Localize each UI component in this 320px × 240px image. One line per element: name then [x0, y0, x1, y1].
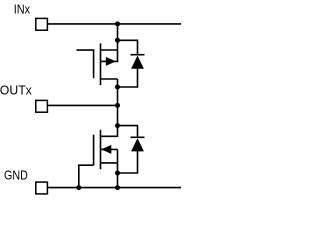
wire F to G — [117, 173, 119, 188]
transistor Q2 channel bar — [100, 130, 102, 170]
wire D2 bottom to node F — [118, 151, 138, 173]
terminal box GND — [36, 182, 48, 194]
node D (OUTx junction) — [115, 103, 120, 108]
transistor Q2 gate lead to GND — [79, 165, 94, 187]
wire GND rail — [48, 187, 182, 189]
svg-text:GND: GND — [4, 167, 28, 182]
diode D1 anode triangle — [131, 56, 144, 69]
transistor Q2 body arrow — [101, 145, 111, 154]
diode D1 cathode bar — [131, 54, 145, 56]
transistor Q1 source stub — [101, 78, 118, 80]
wire INx rail — [48, 23, 182, 25]
wire Q2 drain rail segment — [117, 126, 119, 137]
transistor Q1 (PMOS) gate lead — [77, 50, 94, 78]
node A (INx junction) — [115, 21, 120, 26]
transistor Q1 drain stub — [101, 49, 118, 51]
wire Q1 drain rail segment — [117, 40, 119, 62]
wire B to diode D1 top — [118, 40, 138, 54]
transistor Q2 gate bar — [93, 135, 95, 166]
wire E to diode D2 top — [118, 126, 138, 138]
diode D2 cathode bar — [131, 136, 145, 138]
node E (drain/diode branch bottom) — [115, 123, 120, 128]
transistor Q1 channel bar — [100, 43, 102, 85]
transistor Q2 source stub — [101, 162, 118, 164]
transistor Q1 body stub — [101, 60, 118, 62]
wire D to E — [117, 105, 119, 125]
wire Q1 source rail segment — [117, 79, 119, 87]
wire OUTx — [48, 104, 118, 106]
terminal box OUTx — [36, 100, 48, 112]
node C (source junction) — [115, 85, 120, 90]
node F (source junction bottom) — [115, 171, 120, 176]
node H (gate tie to GND) — [76, 185, 81, 190]
wire D1 bottom to node C — [118, 68, 138, 87]
svg-text:OUTx: OUTx — [0, 83, 32, 98]
wire A to B — [117, 24, 119, 40]
wire Q2 source rail segment — [117, 149, 119, 173]
node B (drain/diode branch) — [115, 38, 120, 43]
transistor Q2 body stub — [101, 148, 118, 150]
diode D2 anode triangle — [131, 138, 144, 151]
node G (GND junction) — [115, 185, 120, 190]
svg-text:INx: INx — [14, 1, 31, 16]
terminal box INx — [36, 18, 48, 30]
transistor Q1 body arrow — [106, 57, 116, 66]
wire C to D — [117, 87, 119, 105]
transistor Q2 (NMOS) drain stub — [101, 135, 118, 137]
